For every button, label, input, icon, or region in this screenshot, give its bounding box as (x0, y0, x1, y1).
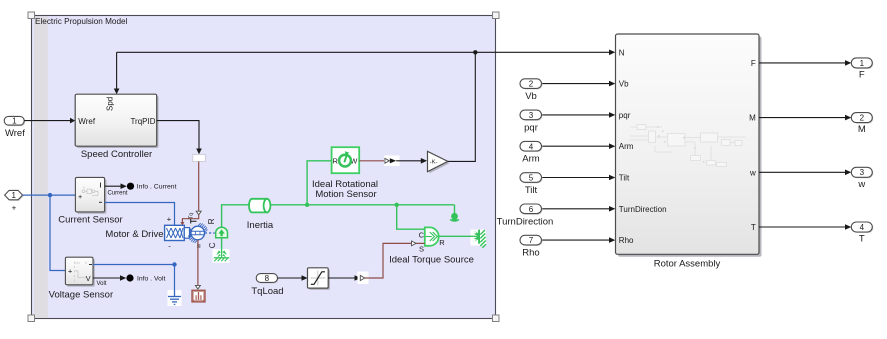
wire converter to gain (396, 158, 427, 164)
svg-text:pqr: pqr (619, 111, 631, 120)
inport 8 TqLoad (251, 274, 283, 297)
selection handle top-right (493, 12, 500, 19)
area annotation: Electric Propulsion Model (28, 12, 499, 322)
block Current Sensor (58, 177, 122, 225)
svg-text:Info . Current: Info . Current (137, 184, 177, 191)
inport 1 Wref (4, 116, 25, 139)
electrical reference ground (168, 290, 182, 306)
shaft hatch bottom-left (188, 234, 197, 243)
mechanical rotational reference (green) (213, 249, 230, 263)
svg-text:TqLoad: TqLoad (251, 286, 283, 297)
svg-text:1: 1 (12, 117, 17, 126)
inport 6 TurnDirection (497, 204, 616, 227)
inport 7 Rho (520, 235, 615, 258)
mechanical rotational reference (maroon) (192, 290, 205, 302)
port triangle into S (412, 241, 417, 246)
outport 2 M (759, 113, 873, 136)
svg-text:Rho: Rho (619, 236, 634, 245)
node junction at gain riser (473, 50, 477, 54)
node junction motor minus (172, 262, 176, 266)
outport 4 T (759, 222, 873, 245)
coil arcs (190, 229, 191, 238)
wire N feedback top (horizontal) (117, 51, 610, 53)
svg-text:+: + (68, 266, 72, 275)
svg-text:Volt: Volt (96, 281, 106, 287)
selection handle top-left (28, 12, 35, 19)
wire 8 to saturation (278, 275, 308, 281)
port triangle into reference (195, 285, 200, 289)
inport 2 Vb (520, 79, 615, 102)
svg-text:N: N (619, 48, 625, 57)
gray side strip (34, 17, 48, 319)
svg-text:Voltage Sensor: Voltage Sensor (49, 289, 113, 300)
svg-text:Current: Current (107, 190, 127, 196)
svg-text:1: 1 (11, 191, 16, 200)
svg-text:6: 6 (529, 205, 534, 214)
svg-text:C: C (208, 242, 217, 248)
svg-text:R: R (439, 238, 445, 247)
dashed link to R dome (205, 232, 215, 234)
arrowhead into N port (609, 50, 615, 56)
svg-text:Tilt: Tilt (619, 174, 630, 183)
svg-text:T: T (859, 234, 865, 245)
outport 1 F (759, 58, 873, 81)
wire torque source R to clamp (439, 235, 472, 237)
physical wire up to torque source S (365, 243, 425, 278)
wire saturation to converter (328, 275, 361, 281)
riser to motion sensor R (307, 161, 332, 205)
subsystem Rotor Assembly (616, 34, 762, 269)
svg-text:T: T (751, 223, 756, 232)
svg-text:Motor & Drive: Motor & Drive (105, 229, 163, 240)
svg-text:Tilt: Tilt (525, 185, 538, 196)
svg-text:-K-: -K- (430, 159, 438, 165)
svg-text:R: R (207, 218, 216, 224)
physical wire W out (359, 160, 384, 162)
wire voltage sensor top to node (93, 264, 175, 266)
svg-text:F: F (751, 59, 756, 68)
inport 3 pqr (520, 110, 615, 133)
gain block -K- (428, 151, 450, 173)
svg-text:TrqPID: TrqPID (130, 117, 155, 126)
svg-text:+: + (78, 192, 82, 201)
rotational conserving wire dome-R riser (222, 205, 250, 228)
wire dome C to rotational ground (221, 238, 223, 252)
svg-text:R: R (333, 156, 339, 165)
svg-text:Current Sensor: Current Sensor (58, 215, 122, 226)
svg-text:w: w (857, 179, 865, 190)
connection port 1 (+) hexagon (5, 190, 24, 212)
svg-text:Vb: Vb (525, 91, 537, 102)
svg-text:M: M (858, 124, 866, 135)
motor rotor circle (191, 226, 205, 240)
svg-text:1: 1 (860, 59, 865, 68)
rotational reference clamp (rotated) (471, 230, 487, 248)
svg-text:2: 2 (860, 114, 865, 123)
svg-text:Info . Volt: Info . Volt (137, 276, 165, 283)
port triangle Tq (196, 211, 201, 215)
signal V out to info dot (93, 274, 165, 287)
inport 5 Tilt (520, 173, 615, 196)
svg-text:w: w (749, 168, 756, 177)
outport 3 w (759, 167, 873, 190)
wire down into Spd (114, 52, 120, 94)
svg-text:Arm: Arm (619, 142, 634, 151)
maroon shaft wire down (197, 240, 199, 286)
svg-text:8: 8 (265, 274, 270, 283)
wire inertia to sensor riser and torque source (270, 204, 454, 206)
svg-text:Vb: Vb (619, 80, 629, 89)
wire gain up to N feedback (448, 52, 476, 161)
ghost preview sketch (630, 125, 746, 167)
svg-text:V: V (86, 274, 91, 283)
signal Current out to info dot (105, 183, 177, 197)
inport 4 Arm (520, 141, 615, 164)
faint icon (75, 262, 87, 282)
branch to torque source C (397, 205, 425, 229)
svg-text:Motion Sensor: Motion Sensor (315, 189, 376, 200)
wire current sensor - out to motor + (105, 203, 175, 226)
svg-text:F: F (859, 69, 865, 80)
svg-text:4: 4 (860, 223, 865, 232)
svg-text:2: 2 (529, 80, 534, 89)
converter S-PS (white block) (193, 155, 206, 162)
physical wire down to motor Tq (198, 162, 200, 212)
svg-text:4: 4 (529, 142, 534, 151)
svg-text:3: 3 (860, 168, 865, 177)
svg-text:TurnDirection: TurnDirection (497, 216, 554, 227)
svg-text:+: + (12, 204, 17, 213)
svg-text:Tq: Tq (188, 213, 194, 219)
svg-text:pqr: pqr (524, 122, 538, 133)
selection handle bottom-right (493, 315, 500, 322)
wire to electrical ground (174, 265, 176, 293)
tick mark (191, 219, 197, 224)
svg-text:+: + (167, 214, 172, 223)
block Saturation (308, 268, 331, 290)
node junction torque branch (395, 203, 399, 207)
wire TrqPID output (157, 121, 202, 155)
converter S-PS small (358, 272, 369, 285)
svg-text:TurnDirection: TurnDirection (619, 205, 667, 214)
motor brush box (184, 228, 189, 239)
faint icon (82, 187, 98, 196)
svg-text:Electric Propulsion Model: Electric Propulsion Model (35, 17, 128, 26)
shaft hatch top-right (198, 223, 207, 232)
svg-text:7: 7 (529, 236, 534, 245)
svg-text:Arm: Arm (522, 154, 540, 165)
svg-text:3: 3 (529, 111, 534, 120)
block Voltage Sensor (49, 257, 113, 300)
svg-text:Speed Controller: Speed Controller (81, 149, 152, 160)
node junction riser (305, 203, 309, 207)
svg-text:Rotor Assembly: Rotor Assembly (654, 258, 721, 269)
svg-text:Inertia: Inertia (247, 220, 274, 231)
svg-text:C: C (419, 230, 425, 239)
svg-text:Ideal Torque Source: Ideal Torque Source (389, 255, 474, 266)
dome housing with up arrow (216, 227, 228, 238)
converter PS-S (384, 156, 400, 167)
terminator ball (450, 205, 460, 222)
svg-text:Wref: Wref (5, 128, 25, 139)
svg-text:Wref: Wref (78, 117, 96, 126)
node junction (48, 193, 52, 197)
wire Wref to Speed Controller (24, 118, 75, 124)
content groups inserted below (4, 50, 615, 226)
block Inertia cylinder (247, 199, 274, 231)
block Ideal Rotational Motion Sensor (312, 147, 378, 200)
svg-text:M: M (749, 114, 756, 123)
svg-text:5: 5 (529, 174, 534, 183)
motor winding box (165, 225, 185, 240)
svg-text:Rho: Rho (522, 248, 539, 259)
wire down to voltage sensor (50, 195, 65, 270)
subsystem Speed Controller (75, 94, 158, 160)
wire into motor winding (182, 215, 198, 223)
svg-text:Spd: Spd (106, 97, 115, 111)
block Ideal Torque Source (389, 227, 474, 265)
selection handle bottom-left (28, 315, 35, 322)
svg-text:S: S (419, 244, 424, 253)
wire from port to current sensor (23, 194, 76, 196)
